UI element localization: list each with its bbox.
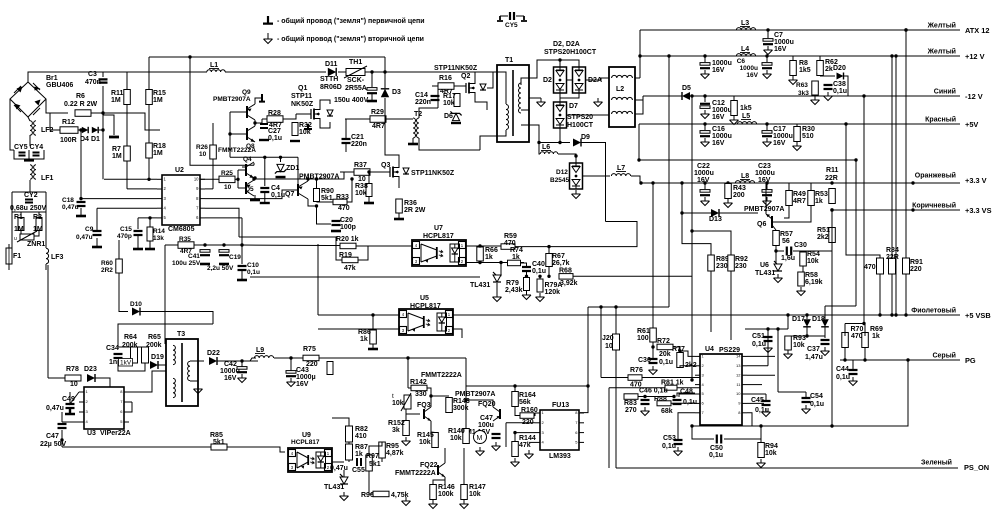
wire U2 pin3 xyxy=(81,198,157,200)
transformer T1 primary xyxy=(506,105,509,130)
svg-text:U5: U5 xyxy=(420,295,429,302)
svg-text:10: 10 xyxy=(70,381,78,388)
svg-text:R147: R147 xyxy=(469,484,486,491)
wire PS_ON rail xyxy=(616,467,958,469)
wire D12 top xyxy=(575,156,577,163)
resistor R63 xyxy=(812,81,819,95)
wire zd1 c4 line xyxy=(230,156,298,158)
svg-text:-12 V: -12 V xyxy=(965,92,983,101)
junction r38 top xyxy=(367,170,370,173)
wire r76 l xyxy=(601,377,628,379)
junction r74 bot xyxy=(509,261,512,264)
resistor R1 xyxy=(18,218,24,231)
diode D23 xyxy=(87,374,95,382)
wire R28 r xyxy=(283,114,296,119)
svg-text:0,1u: 0,1u xyxy=(709,452,723,459)
wire fb long1 xyxy=(239,237,336,246)
wire r77 top pin1 xyxy=(680,351,695,356)
svg-text:R160: R160 xyxy=(521,407,538,414)
resistor R29 xyxy=(370,116,386,123)
capacitor C50 xyxy=(717,435,721,444)
wire Q2 right xyxy=(487,72,493,88)
junction loop pg xyxy=(906,358,909,361)
svg-text:26,7k: 26,7k xyxy=(552,260,570,267)
wire R37 r xyxy=(370,171,390,173)
svg-text:C20: C20 xyxy=(340,217,353,224)
wire snb join xyxy=(118,346,145,348)
wire gate drive line xyxy=(254,172,354,179)
wire c54 up xyxy=(805,392,807,397)
op-amp U5 HCPL817 xyxy=(399,309,453,335)
resistor R61 xyxy=(650,328,657,342)
svg-text:C7: C7 xyxy=(774,32,783,39)
wire c47 dn xyxy=(61,430,63,440)
junction c16 xyxy=(703,122,706,125)
svg-text:10k: 10k xyxy=(299,129,311,136)
wire C21 up xyxy=(345,119,347,139)
svg-text:L8: L8 xyxy=(741,173,749,180)
diode D11 xyxy=(328,68,336,76)
svg-text:Зеленый: Зеленый xyxy=(921,459,952,467)
svg-text:470n: 470n xyxy=(85,79,101,86)
svg-text:1M: 1M xyxy=(112,153,122,160)
svg-text:C27: C27 xyxy=(268,128,281,135)
ground CY5 R xyxy=(521,16,527,21)
resistor R8 xyxy=(790,61,797,76)
diode D2 xyxy=(554,67,567,93)
transistor Q1 xyxy=(311,106,320,122)
svg-text:220: 220 xyxy=(306,361,318,368)
ground R14 xyxy=(145,248,155,251)
wire c45 net xyxy=(757,393,766,395)
svg-text:1M: 1M xyxy=(14,226,24,233)
transistor Q9 xyxy=(247,104,255,120)
junction r91 tap xyxy=(904,28,907,31)
svg-text:47k: 47k xyxy=(519,442,531,449)
diode D13 xyxy=(711,209,719,217)
wire QQ join xyxy=(229,112,231,157)
svg-text:D2, D2A: D2, D2A xyxy=(553,41,580,48)
wire bus x653 xyxy=(652,183,654,328)
wire c23 stub xyxy=(766,183,768,189)
junction q7 e xyxy=(306,177,309,180)
junction x682 d13 xyxy=(680,211,683,214)
svg-text:1M: 1M xyxy=(153,150,163,157)
wire L2r3 to -12 xyxy=(640,96,643,114)
ground C37 xyxy=(821,347,830,356)
junction d17 xyxy=(805,313,808,316)
svg-text:H100CT: H100CT xyxy=(567,122,594,129)
wire r72 out xyxy=(673,347,680,353)
svg-text:0,1u: 0,1u xyxy=(662,443,676,450)
transformer T3 box xyxy=(166,339,198,406)
svg-text:16V: 16V xyxy=(712,114,725,121)
junction r90 top xyxy=(315,177,318,180)
resistor R14 xyxy=(147,227,153,241)
wire 470 up xyxy=(846,124,880,258)
diode D4 xyxy=(82,127,88,133)
junction x692 top xyxy=(690,94,693,97)
resistor R143 xyxy=(446,398,453,413)
transistor FQ22 xyxy=(438,463,445,477)
resistor J20 xyxy=(613,334,620,350)
svg-text:1000µ: 1000µ xyxy=(296,374,316,381)
svg-text:R79: R79 xyxy=(506,280,519,287)
resistor R97 xyxy=(366,455,373,471)
svg-text:R94: R94 xyxy=(765,443,778,450)
junction 12a xyxy=(703,54,706,57)
wire pin6 conn xyxy=(205,217,242,219)
junction r74 l xyxy=(499,261,502,264)
svg-text:Q7: Q7 xyxy=(285,191,294,198)
wire U2 pin5 xyxy=(138,217,157,219)
wire Q45 join xyxy=(254,177,256,179)
resistor R49 xyxy=(786,191,793,206)
capacitor bulk 150u xyxy=(367,88,377,94)
capacitor CY5a xyxy=(19,153,26,156)
zener D6 xyxy=(450,111,461,120)
transformer T1 box xyxy=(497,65,529,142)
svg-text:1000u: 1000u xyxy=(755,170,775,177)
svg-text:4R7: 4R7 xyxy=(372,123,385,130)
ground R30 xyxy=(793,142,802,151)
svg-text:R76: R76 xyxy=(630,367,643,374)
wire c22 stub xyxy=(704,183,706,189)
junction vsb1 xyxy=(878,313,881,316)
junction atx right xyxy=(904,28,907,31)
wire r49 dn xyxy=(784,205,789,218)
wire base riser xyxy=(237,170,239,188)
wire r51 net xyxy=(831,210,833,227)
resistor R91 xyxy=(903,258,910,274)
svg-text:0,1u: 0,1u xyxy=(810,401,824,408)
inductor L2 row1 xyxy=(612,75,633,78)
resistor R83 xyxy=(624,394,638,400)
svg-text:Q2: Q2 xyxy=(461,73,470,80)
label C34 kv box xyxy=(119,359,133,367)
resistor R36 xyxy=(396,199,403,213)
ground tl431 stby xyxy=(340,492,349,501)
junction rail12 xyxy=(638,54,641,57)
svg-text:200k: 200k xyxy=(146,342,162,349)
svg-text:0,1u: 0,1u xyxy=(247,269,260,276)
svg-text:Q4: Q4 xyxy=(243,156,252,163)
ground R86 xyxy=(368,348,378,351)
junction R6-C3 xyxy=(101,111,104,114)
svg-text:R29: R29 xyxy=(371,109,384,116)
wire stby fb2 xyxy=(348,442,350,444)
svg-text:R18: R18 xyxy=(153,143,166,150)
wire Q98 out xyxy=(255,119,262,123)
svg-text:1kV: 1kV xyxy=(120,360,132,367)
wire R14 stub xyxy=(149,241,151,248)
capacitor C9 xyxy=(93,231,102,235)
wire Q9 top xyxy=(255,98,262,104)
wire d17 up xyxy=(806,315,808,319)
svg-text:C10: C10 xyxy=(247,262,259,269)
svg-text:R14: R14 xyxy=(153,228,165,235)
svg-text:STP11NK50Z: STP11NK50Z xyxy=(434,65,478,72)
wire C3 stub xyxy=(102,72,104,77)
wire LF2 down xyxy=(29,135,31,146)
wire fan wires xyxy=(465,386,467,428)
svg-text:Серый: Серый xyxy=(932,352,956,360)
wire rect out right xyxy=(585,78,609,80)
svg-text:PMBT2907A: PMBT2907A xyxy=(744,206,784,213)
wire U2 pin4 riser xyxy=(96,208,98,227)
wire CY row xyxy=(14,150,44,159)
wire R30 up xyxy=(796,124,798,126)
ground C54 xyxy=(802,405,811,414)
wire R18 bottom xyxy=(148,158,150,179)
svg-text:R26: R26 xyxy=(196,144,208,151)
junction r84 tap xyxy=(890,54,893,57)
diode D2A xyxy=(573,67,586,93)
diode D20 xyxy=(837,73,844,80)
capacitor C6 xyxy=(762,63,772,69)
svg-text:2,43k: 2,43k xyxy=(505,287,523,294)
wire U5 left wire xyxy=(317,244,319,315)
svg-text:4,87k: 4,87k xyxy=(386,450,404,457)
capacitor C41 xyxy=(200,250,210,256)
svg-text:Синий: Синий xyxy=(934,88,956,96)
wire T1 to D2 top xyxy=(529,60,560,78)
ground C7 xyxy=(764,46,773,55)
wire D3 v xyxy=(384,72,386,88)
resistor R81 xyxy=(665,385,677,390)
svg-text:C15: C15 xyxy=(120,226,132,233)
svg-text:C6: C6 xyxy=(737,58,746,65)
svg-text:R86: R86 xyxy=(358,329,371,336)
inductor LF1 right xyxy=(34,165,36,179)
resistor R54 xyxy=(800,252,807,266)
FU13 pins xyxy=(535,410,584,444)
underline L6 xyxy=(541,150,551,152)
capacitor C51 xyxy=(764,337,773,341)
capacitor C20 xyxy=(332,221,341,225)
wire C21 dn xyxy=(345,144,347,152)
inductor L9 xyxy=(254,356,273,358)
wire r79a stub xyxy=(539,276,541,279)
wire u4 pin6 xyxy=(688,402,695,404)
svg-text:R43: R43 xyxy=(733,185,746,192)
wire q7 c dn xyxy=(308,199,317,206)
legend secondary ground symbol xyxy=(264,33,273,44)
resistor R18 xyxy=(146,143,153,158)
wire r57 dn xyxy=(776,246,784,251)
resistor R85 xyxy=(211,444,227,450)
resistor R147 xyxy=(461,485,468,500)
junction r77 top xyxy=(678,349,681,352)
ground D6 xyxy=(451,122,461,124)
wire x778 dn xyxy=(777,329,779,392)
svg-text:230: 230 xyxy=(735,263,747,270)
wire c30 r54 xyxy=(793,251,803,252)
wire rail PG xyxy=(840,359,960,361)
junction zd1 col xyxy=(279,156,282,159)
svg-text:R85: R85 xyxy=(210,432,223,439)
wire rail +5 xyxy=(639,123,960,125)
capacitor C12 xyxy=(700,104,710,109)
wire c47 join xyxy=(61,440,63,447)
wire r160 out xyxy=(534,413,535,416)
svg-text:R59: R59 xyxy=(504,233,517,240)
junction q45 out xyxy=(252,177,255,180)
resistor R62 xyxy=(817,61,824,76)
wire Q9 base bus xyxy=(230,111,247,113)
svg-text:R1: R1 xyxy=(14,214,23,221)
wire y336 xyxy=(788,335,825,337)
capacitor C10 xyxy=(238,266,247,270)
resistor R30 xyxy=(794,127,801,142)
svg-text:1M: 1M xyxy=(153,97,163,104)
svg-text:470: 470 xyxy=(864,264,876,271)
wire D9 out xyxy=(581,143,606,222)
wire CY2 frame xyxy=(12,191,46,193)
wire stby fb4 xyxy=(348,460,350,462)
ground R152 xyxy=(402,437,411,446)
wire CY2 left xyxy=(11,192,13,214)
wire therm r152 xyxy=(405,409,407,421)
svg-text:10k: 10k xyxy=(793,342,805,349)
wire d18 up xyxy=(824,306,826,319)
junction y329b xyxy=(776,327,779,330)
svg-text:U7: U7 xyxy=(434,225,443,232)
capacitor C4b xyxy=(260,188,269,192)
svg-text:470: 470 xyxy=(504,240,516,247)
svg-text:R64: R64 xyxy=(124,334,137,341)
wire r33 r xyxy=(347,179,352,202)
capacitor C21 xyxy=(342,139,351,143)
ground C46 xyxy=(641,407,650,416)
wire U2 pin1 xyxy=(104,178,157,180)
wire sense x856 xyxy=(855,160,857,306)
resistor R160 xyxy=(520,413,534,419)
svg-text:56k: 56k xyxy=(519,399,531,406)
junction T1bot1 xyxy=(537,141,540,144)
wire rail +5 vert xyxy=(638,124,640,160)
ground C41 xyxy=(200,263,210,266)
svg-text:10: 10 xyxy=(199,151,207,158)
inductor L2 box xyxy=(609,67,635,127)
wire R25 out riser xyxy=(235,178,238,180)
svg-text:D7: D7 xyxy=(569,103,578,110)
svg-text:230: 230 xyxy=(716,263,728,270)
transistor Q3 xyxy=(390,164,399,180)
svg-text:C17: C17 xyxy=(773,126,786,133)
wire znr wires2 xyxy=(45,214,47,248)
wire U5 in1 xyxy=(318,314,399,316)
wire R7 bottom xyxy=(126,161,128,189)
capacitor C3 xyxy=(99,79,108,82)
op-amp U9 HCPL817 xyxy=(288,448,332,472)
svg-text:HCPL817: HCPL817 xyxy=(410,303,441,310)
wire stby fb wires xyxy=(332,418,349,426)
capacitor C34 xyxy=(114,354,123,358)
svg-text:+12 V: +12 V xyxy=(965,52,985,61)
wire L6 right xyxy=(558,154,576,162)
ground C47 fan xyxy=(492,442,501,451)
legend primary ground symbol xyxy=(263,16,273,24)
junction c23 xyxy=(765,181,768,184)
wire T3 sec out xyxy=(190,360,204,362)
svg-text:10: 10 xyxy=(736,391,741,396)
ground C42 xyxy=(238,374,247,383)
svg-text:0,1u: 0,1u xyxy=(271,192,285,199)
junction r33 r xyxy=(350,177,353,180)
svg-text:R37: R37 xyxy=(354,162,367,169)
wire LF1 down xyxy=(29,180,31,192)
wire u4 p9 xyxy=(747,402,764,404)
wire F1 top stub xyxy=(9,244,12,248)
svg-text:R25: R25 xyxy=(221,170,233,177)
svg-text:R12: R12 xyxy=(62,119,75,126)
wire Q3 src xyxy=(398,180,400,188)
svg-text:Желтый: Желтый xyxy=(927,48,956,56)
wire aux feed xyxy=(549,222,637,247)
wire snb top xyxy=(118,324,213,347)
svg-text:2R55A: 2R55A xyxy=(345,85,367,92)
svg-text:10: 10 xyxy=(224,184,232,191)
wire Q1 src xyxy=(320,122,330,128)
svg-text:5k1: 5k1 xyxy=(213,439,225,446)
capacitor C6a xyxy=(700,63,710,69)
wire CY2 right xyxy=(45,192,47,214)
svg-text:R11: R11 xyxy=(111,90,124,97)
svg-text:L3: L3 xyxy=(741,20,749,27)
svg-text:R2: R2 xyxy=(33,214,42,221)
wire pin1 line right xyxy=(515,246,549,248)
wire fan top xyxy=(340,357,466,359)
svg-text:100u 25V: 100u 25V xyxy=(172,260,201,267)
wire r38 top xyxy=(368,172,370,184)
junction rail5 xyxy=(637,158,640,161)
wire r69 dn xyxy=(864,348,866,361)
wire q4 base stub xyxy=(238,169,246,171)
wire c6 stub xyxy=(766,56,768,62)
svg-text:HCPL817: HCPL817 xyxy=(423,233,454,240)
capacitor C55 xyxy=(357,458,361,466)
wire sense x832 xyxy=(831,210,833,426)
svg-text:16V: 16V xyxy=(224,375,237,382)
wire C3 down xyxy=(102,86,104,179)
wire HV top rail 2 xyxy=(225,71,326,73)
wire R16 r xyxy=(454,86,466,88)
wire Q5 emit xyxy=(254,195,256,199)
capacitor C44 xyxy=(849,370,858,374)
wire y3877 line xyxy=(609,387,700,389)
wire R20 out xyxy=(356,245,412,247)
ground C10 xyxy=(237,279,247,282)
wire R36 stub xyxy=(398,213,400,218)
svg-text:D23: D23 xyxy=(84,366,97,373)
wire Q8 base xyxy=(230,133,247,135)
wire l9 out xyxy=(274,357,330,359)
wire D7 top xyxy=(559,98,561,102)
thermistor t 10k xyxy=(392,393,411,411)
wire U5 in2 xyxy=(318,328,399,330)
wire tl431 k xyxy=(343,470,345,477)
svg-text:R15: R15 xyxy=(153,90,166,97)
wire u4 p13 xyxy=(747,365,768,367)
svg-text:0,1u: 0,1u xyxy=(833,88,847,95)
svg-text:C46 0,1u: C46 0,1u xyxy=(639,388,668,395)
svg-text:R58: R58 xyxy=(805,272,818,279)
wire CY mid xyxy=(28,150,30,155)
junction c12 xyxy=(703,94,706,97)
shunt reg TL431 stby xyxy=(340,474,348,484)
ground Q9 top xyxy=(259,94,265,102)
